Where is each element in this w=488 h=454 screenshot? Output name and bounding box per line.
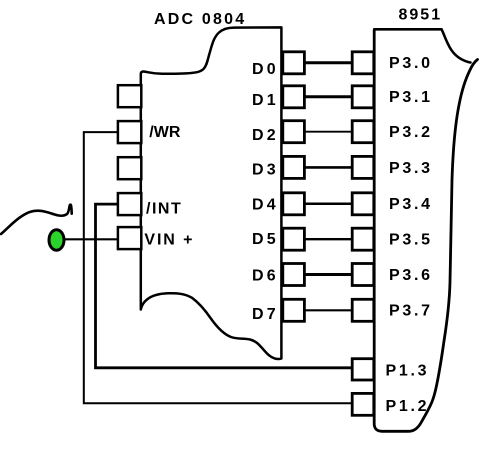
svg-text:VIN +: VIN +: [144, 232, 194, 249]
IC U2 8951 top edge and torn corner: [374, 29, 470, 62]
pin box ADC pin 3 (unlabeled): [118, 157, 141, 179]
pin box ADC D2: [283, 121, 305, 143]
wire VIN+ input lead: [63, 238, 118, 240]
svg-text:D2: D2: [252, 127, 279, 144]
svg-text:P3.4: P3.4: [389, 196, 433, 213]
svg-text:P3.0: P3.0: [389, 55, 433, 72]
svg-text:P1.2: P1.2: [386, 398, 430, 415]
pin box ADC D3: [283, 156, 305, 178]
pin box 8951 P3.2: [352, 121, 374, 143]
IC U2 8951 body outline: [374, 31, 477, 432]
pin box 8951 P3.4: [352, 193, 374, 215]
wire D7 to P3.7: [304, 309, 353, 311]
svg-text:D3: D3: [252, 161, 279, 178]
pin box ADC /INT: [118, 193, 141, 215]
wire D5 to P3.5: [304, 238, 353, 240]
svg-text:D1: D1: [252, 92, 279, 109]
svg-text:/INT: /INT: [146, 200, 182, 217]
pin box 8951 P1.3: [352, 359, 374, 380]
svg-text:P3.6: P3.6: [389, 267, 433, 284]
pin box 8951 P3.7: [352, 299, 374, 321]
svg-text:D5: D5: [252, 231, 279, 248]
pin box ADC D6: [283, 264, 305, 286]
wire D0 to P3.0: [304, 61, 353, 64]
pin box ADC VIN+: [118, 227, 141, 249]
svg-text:P1.3: P1.3: [386, 362, 430, 379]
wire D4 to P3.4: [304, 203, 353, 206]
svg-text:P3.5: P3.5: [389, 232, 433, 249]
pin box ADC D5: [283, 228, 305, 250]
svg-text:P3.2: P3.2: [389, 124, 433, 141]
wire D2 to P3.2: [304, 131, 353, 133]
svg-text:D4: D4: [252, 196, 279, 213]
wire D6 to P3.6: [304, 273, 353, 276]
svg-text:P3.1: P3.1: [389, 89, 433, 106]
pin box 8951 P3.6: [352, 264, 374, 286]
wire D3 to P3.3: [304, 166, 353, 169]
pin box 8951 P3.0: [352, 52, 374, 74]
svg-text:D6: D6: [252, 267, 279, 284]
pin box ADC /WR: [118, 121, 141, 143]
pin box 8951 P3.3: [352, 156, 374, 178]
wire /WR to P1.2: [84, 132, 352, 403]
input lead squiggle: [1, 205, 72, 234]
pin box 8951 P1.2: [352, 393, 374, 415]
svg-text:/WR: /WR: [149, 124, 181, 141]
pin box 8951 P3.5: [352, 228, 374, 250]
pin box ADC D7: [283, 299, 305, 321]
svg-text:ADC 0804: ADC 0804: [154, 11, 246, 28]
IC U1 ADC 0804 body: [141, 27, 282, 359]
svg-text:P3.7: P3.7: [389, 303, 433, 320]
pin box ADC D4: [283, 193, 305, 215]
svg-text:P3.3: P3.3: [389, 160, 433, 177]
wire /INT to P1.3: [96, 204, 353, 368]
pin box ADC D0: [283, 52, 305, 74]
svg-text:D7: D7: [252, 306, 279, 323]
pin box ADC pin 1 (unlabeled): [118, 85, 141, 107]
pin box ADC D1: [283, 86, 305, 108]
svg-text:8951: 8951: [399, 6, 443, 23]
wire D1 to P3.1: [304, 95, 353, 98]
input source green ellipse: [49, 230, 64, 251]
pin box 8951 P3.1: [352, 86, 374, 108]
svg-text:D0: D0: [252, 61, 279, 78]
